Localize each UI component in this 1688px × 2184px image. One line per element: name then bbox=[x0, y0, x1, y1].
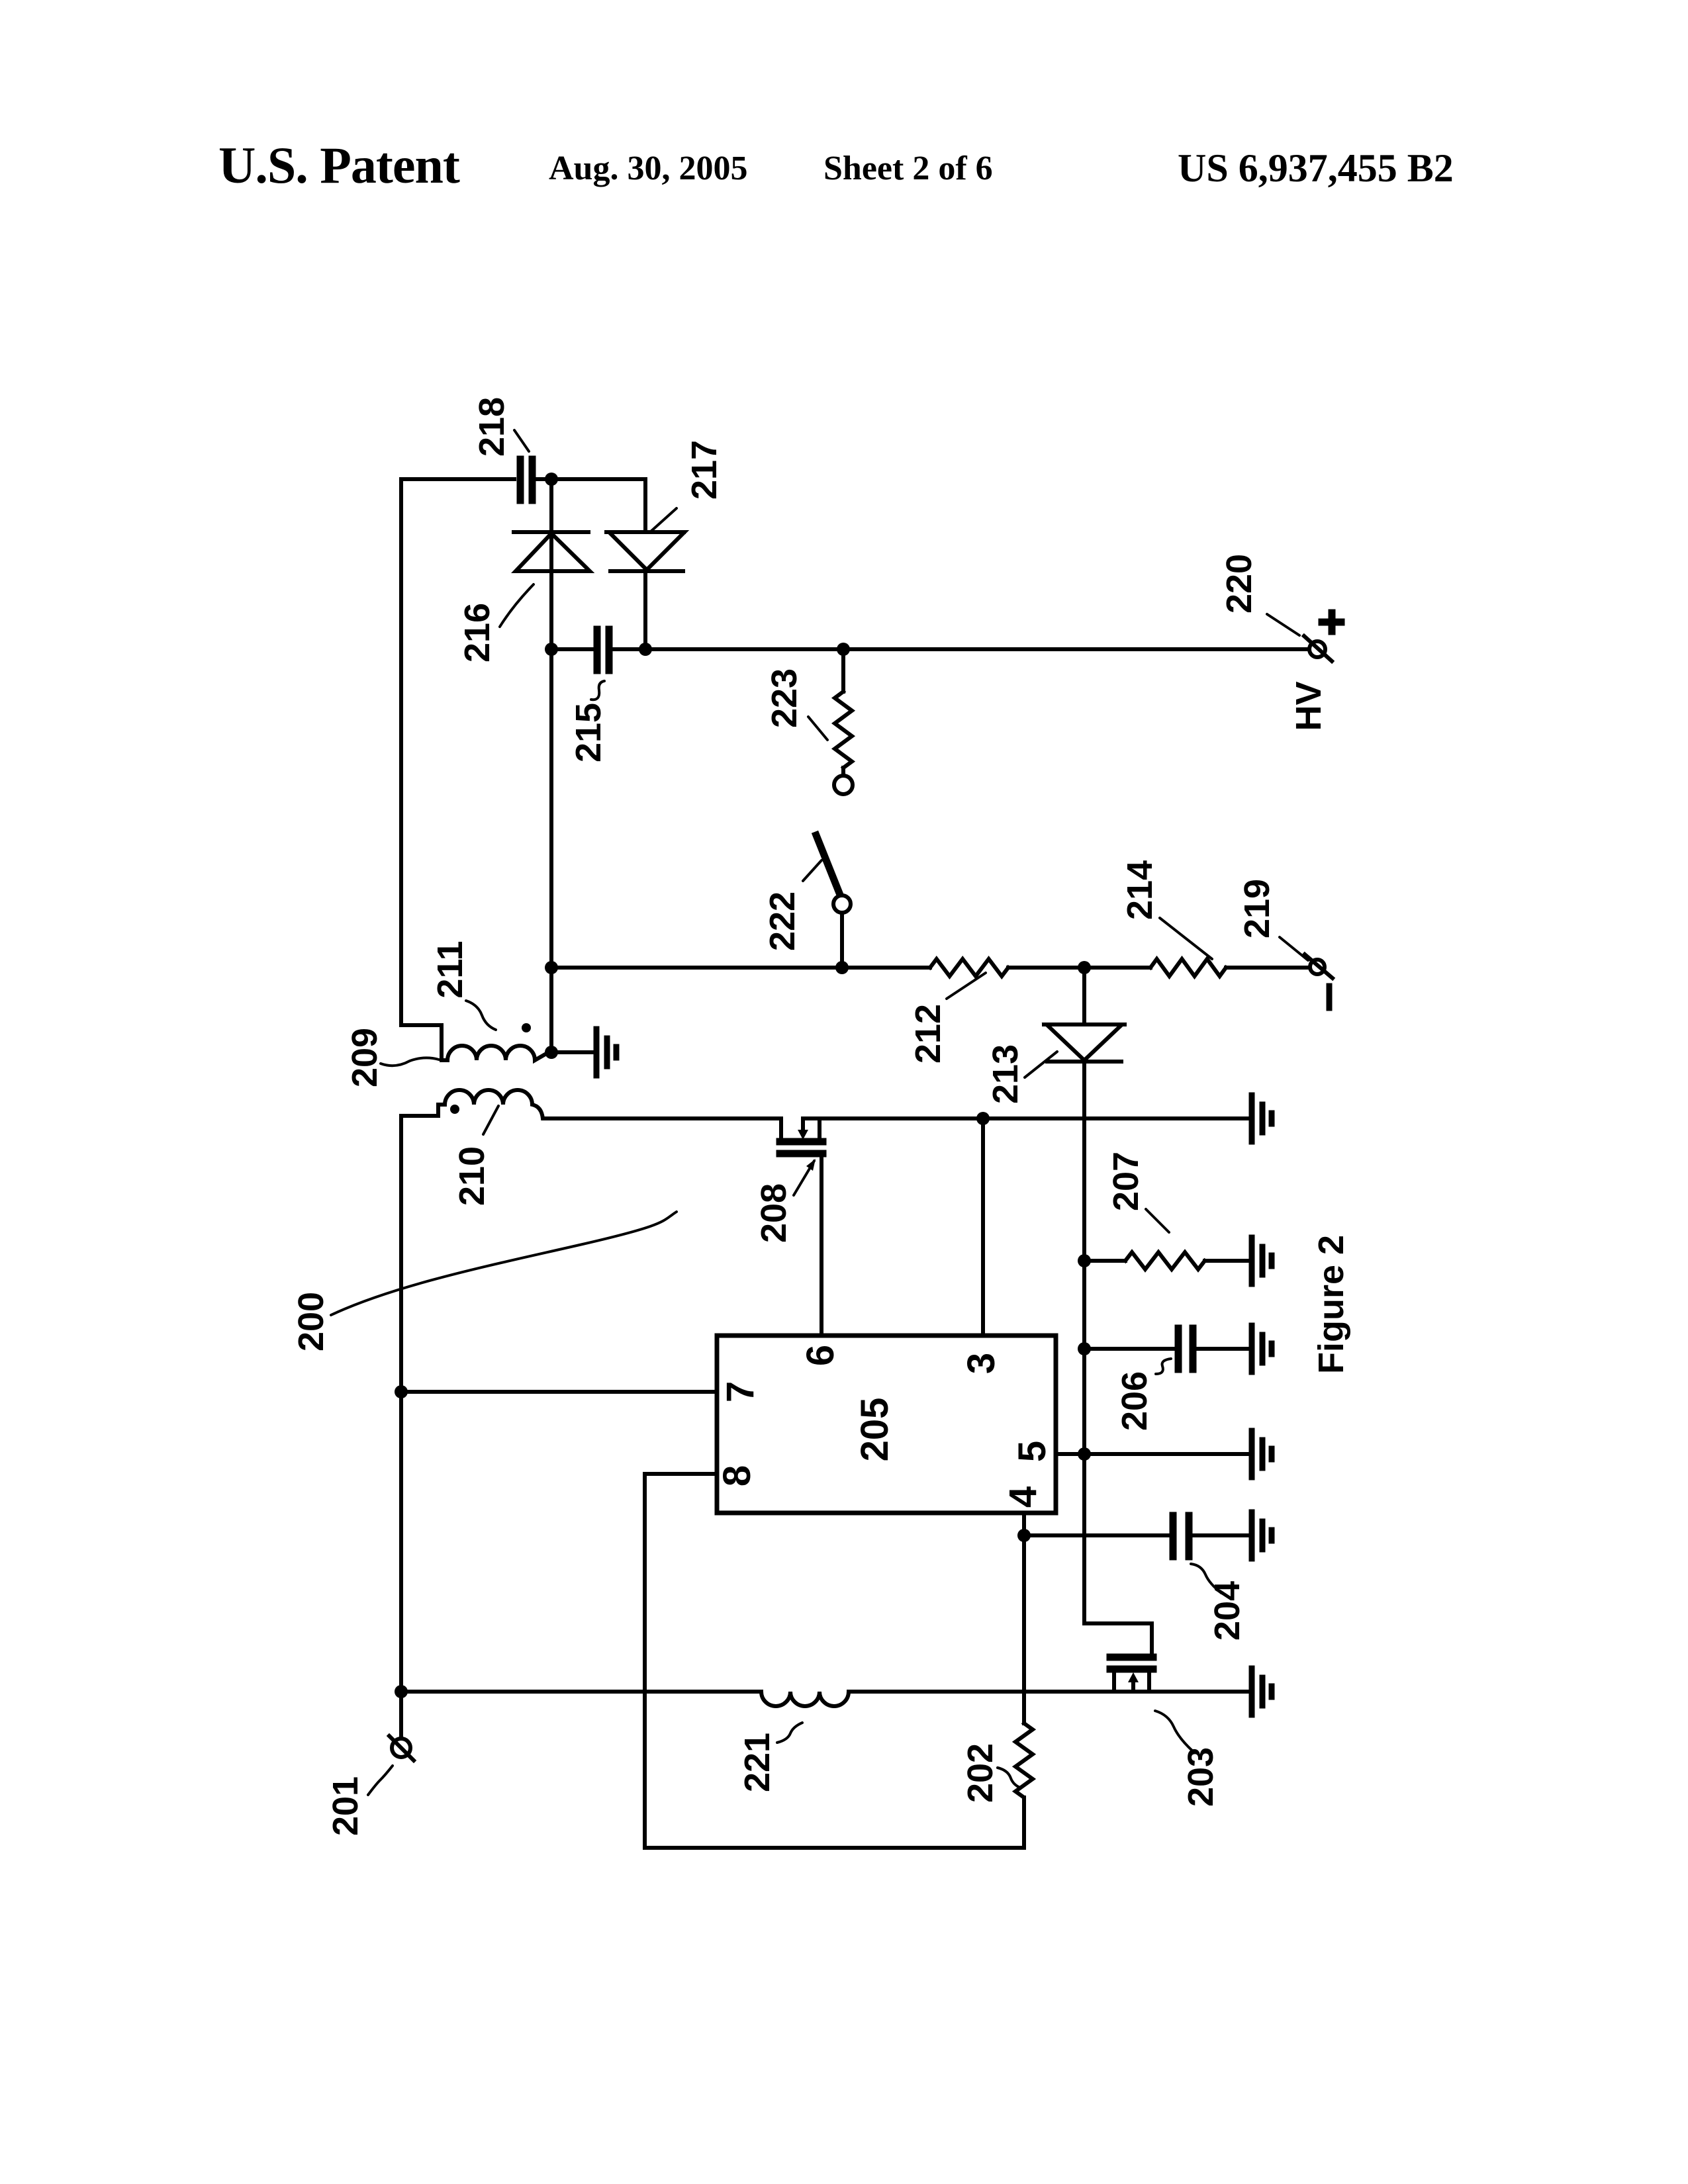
svg-text:212: 212 bbox=[908, 1004, 948, 1064]
svg-text:213: 213 bbox=[986, 1044, 1025, 1104]
svg-text:208: 208 bbox=[754, 1183, 794, 1243]
svg-text:US 6,937,455 B2: US 6,937,455 B2 bbox=[1178, 146, 1454, 190]
svg-text:8: 8 bbox=[716, 1465, 759, 1486]
svg-text:218: 218 bbox=[472, 397, 512, 457]
svg-text:200: 200 bbox=[291, 1292, 331, 1351]
svg-text:217: 217 bbox=[684, 440, 724, 500]
svg-text:216: 216 bbox=[457, 603, 497, 662]
svg-text:215: 215 bbox=[569, 703, 608, 762]
svg-text:210: 210 bbox=[452, 1146, 492, 1206]
svg-text:Sheet 2 of 6: Sheet 2 of 6 bbox=[823, 150, 993, 187]
svg-text:HV: HV bbox=[1289, 681, 1329, 731]
svg-text:Figure 2: Figure 2 bbox=[1311, 1235, 1351, 1374]
svg-text:Aug. 30, 2005: Aug. 30, 2005 bbox=[549, 150, 747, 187]
svg-text:202: 202 bbox=[961, 1743, 1000, 1803]
svg-text:U.S. Patent: U.S. Patent bbox=[218, 136, 460, 194]
svg-text:205: 205 bbox=[853, 1398, 896, 1462]
svg-text:5: 5 bbox=[1011, 1441, 1054, 1462]
svg-text:209: 209 bbox=[345, 1028, 385, 1087]
svg-text:220: 220 bbox=[1219, 554, 1259, 614]
svg-text:206: 206 bbox=[1115, 1371, 1154, 1431]
svg-text:201: 201 bbox=[326, 1776, 365, 1836]
svg-text:203: 203 bbox=[1181, 1747, 1221, 1807]
svg-text:204: 204 bbox=[1207, 1581, 1247, 1641]
svg-text:7: 7 bbox=[719, 1381, 762, 1402]
svg-text:219: 219 bbox=[1237, 879, 1277, 938]
svg-text:214: 214 bbox=[1120, 860, 1160, 920]
svg-text:3: 3 bbox=[960, 1353, 1003, 1374]
svg-text:223: 223 bbox=[765, 668, 804, 728]
svg-text:4: 4 bbox=[1002, 1486, 1045, 1508]
svg-text:6: 6 bbox=[799, 1345, 842, 1366]
svg-text:222: 222 bbox=[763, 891, 802, 951]
svg-text:211: 211 bbox=[430, 940, 470, 998]
svg-text:207: 207 bbox=[1106, 1152, 1146, 1211]
svg-text:221: 221 bbox=[737, 1733, 777, 1792]
